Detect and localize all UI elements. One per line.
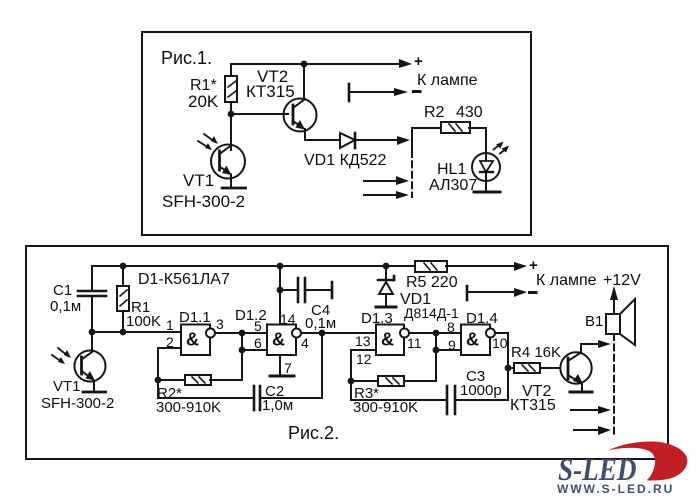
gate D1.3 <box>376 325 409 356</box>
label + (fig2) <box>529 257 538 274</box>
label pin 9 <box>448 337 456 353</box>
frame figure 2 <box>26 246 668 459</box>
arrowhead lamp 2 fig1 <box>396 191 409 199</box>
svg-text:R5 220: R5 220 <box>406 274 458 291</box>
label HL1 АЛ307 <box>429 161 477 194</box>
svg-text:13: 13 <box>355 333 371 349</box>
svg-text:430: 430 <box>456 104 483 121</box>
label R3* <box>354 385 379 402</box>
svg-text:300-910K: 300-910K <box>353 399 418 416</box>
svg-text:К лампе: К лампе <box>536 272 597 289</box>
svg-text:C1: C1 <box>53 282 72 299</box>
arrowhead lamp 1 fig2 <box>598 406 611 414</box>
photo arrows VT1 fig1 <box>198 134 218 150</box>
wire minus line fig2 <box>467 291 518 293</box>
resistor R1 (fig1) <box>225 64 237 114</box>
svg-text:&: & <box>466 330 479 350</box>
svg-text:D1.2: D1.2 <box>235 307 267 324</box>
wire top rail fig2 <box>92 265 415 267</box>
node rail VD1 <box>383 263 390 270</box>
label C4 0,1м <box>305 302 336 332</box>
label D1.2 <box>235 307 267 324</box>
transistor VT2 (fig2) <box>560 344 591 392</box>
svg-text:D1-К561ЛА7: D1-К561ЛА7 <box>138 271 230 288</box>
wire lamp arrow 1 fig1 <box>364 180 400 182</box>
zener VD1 fig2 <box>378 266 394 306</box>
diode VD1 (fig1) <box>340 133 355 148</box>
resistor R2* <box>158 375 242 385</box>
node R4 tap <box>505 365 512 372</box>
svg-text:D1.4: D1.4 <box>466 310 498 327</box>
svg-text:VT1: VT1 <box>53 378 81 395</box>
svg-text:0,1м: 0,1м <box>305 315 336 332</box>
LED arrows HL1 <box>494 142 510 154</box>
label КТ315 fig2 <box>510 397 556 414</box>
resistor R4 <box>508 363 560 373</box>
label R4 16K <box>511 344 561 361</box>
arrowhead lamp 2 fig2 <box>598 426 611 435</box>
label pin 2 <box>166 334 174 350</box>
node D1.1 out vertical top <box>239 330 246 337</box>
svg-text:14: 14 <box>280 311 296 327</box>
svg-text:Рис.2.: Рис.2. <box>288 423 339 443</box>
logo www.s-led.ru text <box>557 482 674 496</box>
svg-text:VT1: VT1 <box>183 171 214 190</box>
ground HL1 <box>474 191 500 194</box>
svg-text:Рис.1.: Рис.1. <box>161 48 212 68</box>
label D1.3 <box>361 310 393 327</box>
resistor R5 <box>415 261 447 272</box>
label pin 1 <box>166 317 174 333</box>
transistor VT2 (fig1) <box>284 64 317 140</box>
svg-text:11: 11 <box>407 335 422 351</box>
label R5 220 <box>406 274 458 291</box>
label - (fig1) <box>414 90 421 93</box>
wire VT2 emitter to VD1 <box>305 139 340 141</box>
svg-text:SFH-300-2: SFH-300-2 <box>162 192 245 211</box>
wire pin6 stub <box>242 349 267 351</box>
photo arrows VT1 fig2 <box>52 348 71 364</box>
label pin 13 <box>355 333 371 349</box>
phototransistor VT1 (fig2) <box>75 332 106 390</box>
gate D1.4 <box>461 325 495 356</box>
svg-text:R4 16K: R4 16K <box>511 344 561 361</box>
ground VT2 fig2 <box>570 391 592 394</box>
label +12V <box>603 272 641 289</box>
svg-text:VD1 КД522: VD1 КД522 <box>304 152 387 169</box>
ground bar minus terminal fig1 <box>348 84 351 101</box>
label pin 12 <box>356 351 372 367</box>
label R1 100K <box>126 299 161 330</box>
arrowhead into lamp node fig1 <box>397 136 410 145</box>
wire feedback vertical D1.1 <box>241 333 243 380</box>
svg-text:6: 6 <box>254 335 262 351</box>
svg-text:1000р: 1000р <box>460 382 502 399</box>
resistor R2 (fig1) <box>441 122 470 133</box>
label D1-К561ЛА7 <box>138 271 230 288</box>
svg-text:D1.3: D1.3 <box>361 310 393 327</box>
wire D1.4 output down <box>496 333 509 400</box>
capacitor C3 <box>351 381 508 414</box>
svg-text:КТ315: КТ315 <box>510 397 556 414</box>
node junction R1 top rail <box>301 61 308 68</box>
arrowhead minus fig2 <box>514 288 527 297</box>
gate D1.2 <box>267 325 301 356</box>
label pin 3 <box>216 316 224 332</box>
svg-text:100K: 100K <box>126 313 161 330</box>
wire input line to D1.1 pin1 <box>92 331 181 333</box>
label C3 1000р <box>460 368 502 399</box>
svg-text:B1: B1 <box>585 313 603 330</box>
svg-text:9: 9 <box>448 337 456 353</box>
label 300-910K (right) <box>353 399 418 416</box>
wire VT2 base <box>231 113 288 115</box>
wire top rail fig1 <box>231 63 404 65</box>
label D1.1 <box>179 309 211 326</box>
node rail pin14 <box>277 263 284 270</box>
wire R2 to HL1 <box>469 128 486 154</box>
label pin 8 <box>447 319 455 335</box>
label pin 6 <box>254 335 262 351</box>
ground VD1 <box>376 306 396 309</box>
wire pin9 stub <box>436 349 461 351</box>
label pin 7 <box>284 360 292 376</box>
wire VD1 to lamp branch <box>355 139 400 141</box>
wire D1.1 pin2 <box>158 348 181 380</box>
label VT1 fig2 <box>53 378 81 395</box>
label pin 5 <box>254 318 262 334</box>
svg-text:300-910K: 300-910K <box>156 399 221 416</box>
wire VT2 collector <box>581 343 604 345</box>
label VT2 КТ315 <box>246 67 295 101</box>
label + (fig1) <box>414 53 423 70</box>
node C4 tap <box>277 287 284 294</box>
svg-text:&: & <box>272 330 285 350</box>
wire feedback vertical D1.3 <box>435 333 437 381</box>
svg-text:2: 2 <box>166 334 174 350</box>
svg-text:8: 8 <box>447 319 455 335</box>
label pin 4 <box>301 335 309 351</box>
label SFH-300-2 fig1 <box>162 192 245 211</box>
LED HL1 <box>472 153 500 190</box>
wire pin 14 <box>279 266 281 325</box>
resistor R3* <box>351 376 436 386</box>
wire rail after R5 <box>446 265 518 267</box>
label C1 0,1м <box>50 282 81 315</box>
wire lamp node vertical dashed <box>411 151 413 197</box>
svg-text:&: & <box>186 330 199 350</box>
arrowhead collector to lamp <box>598 340 611 348</box>
label VT2 fig2 <box>522 383 551 400</box>
label 300-910K (left) <box>156 399 221 416</box>
wire D1.1 output to D1.2 <box>216 332 268 334</box>
node VT1 collector C1 <box>89 329 96 336</box>
gate D1.1 <box>181 325 215 356</box>
svg-text:SFH-300-2: SFH-300-2 <box>41 395 114 412</box>
label К лампе (fig1) <box>417 72 478 89</box>
ground pin7 <box>270 375 294 378</box>
svg-text:КТ315: КТ315 <box>246 82 295 101</box>
phototransistor VT1 (fig1) <box>211 145 245 188</box>
wire lamp node vertical solid <box>411 128 413 151</box>
frame figure 1 <box>142 32 531 235</box>
label Рис.2. <box>288 423 339 443</box>
wire lamp arrow 2 fig2 <box>574 429 604 431</box>
label pin 11 <box>407 335 422 351</box>
label C2 1,0м <box>262 383 293 414</box>
svg-text:10: 10 <box>492 335 508 351</box>
label VD1 КД522 <box>304 152 387 169</box>
label R2 430 <box>424 104 483 121</box>
node D1.3 out top <box>433 330 440 337</box>
wire pin 7 ground <box>279 355 281 376</box>
node C2 feedback / pin13 line <box>319 330 326 337</box>
wire R1 bottom to VT1 collector <box>230 114 232 150</box>
arrowhead minus fig1 <box>394 88 408 96</box>
svg-text:D1.1: D1.1 <box>179 309 211 326</box>
ground bar minus terminal fig2 <box>466 286 469 300</box>
node rail R1 <box>120 263 127 270</box>
wire to R2 <box>412 127 441 129</box>
speaker B1 <box>606 299 635 345</box>
arrowhead + rail fig2 <box>514 262 527 271</box>
wire D1.3 output <box>410 332 462 334</box>
resistor R1 (fig2) <box>117 266 129 332</box>
node R2* left <box>155 377 162 384</box>
ground VT1 fig2 <box>83 391 106 394</box>
node junction R1 bottom / VT2 base <box>228 111 235 118</box>
svg-text:+12V: +12V <box>603 272 641 289</box>
svg-text:7: 7 <box>284 360 292 376</box>
svg-text:HL1: HL1 <box>437 161 466 178</box>
node R1 bottom input line <box>120 329 127 336</box>
svg-text:4: 4 <box>301 335 309 351</box>
label R2* <box>157 385 182 402</box>
svg-text:3: 3 <box>216 316 224 332</box>
label D1.4 <box>466 310 498 327</box>
wire D1.2 output to D1.3 pin13 <box>302 332 377 334</box>
wire lamp arrow 2 fig1 <box>364 194 400 196</box>
logo S-LED crescent <box>608 441 688 480</box>
arrowhead lamp 1 fig1 <box>396 176 409 185</box>
label - (fig2) <box>530 291 537 294</box>
svg-text:+: + <box>414 53 423 70</box>
svg-text:20K: 20K <box>188 92 219 111</box>
ground bar C4 terminal <box>331 282 334 298</box>
wire D1.3 pin12 <box>351 350 376 381</box>
svg-text:1: 1 <box>166 317 174 333</box>
svg-text:К лампе: К лампе <box>417 72 478 89</box>
node R3* left <box>348 378 355 385</box>
label pin 10 <box>492 335 508 351</box>
svg-text:&: & <box>381 330 394 350</box>
svg-text:АЛ307: АЛ307 <box>429 177 477 194</box>
wire lamp arrow 1 fig2 <box>571 409 604 411</box>
label SFH-300-2 fig2 <box>41 395 114 412</box>
label Рис.1. <box>161 48 212 68</box>
svg-text:WWW.S-LED.RU: WWW.S-LED.RU <box>557 482 674 496</box>
node pin9 tap <box>433 347 440 354</box>
wire dashed lamp line <box>613 334 615 437</box>
wire minus line fig1 <box>349 91 399 93</box>
label VD1 fig2 <box>400 291 431 308</box>
ground VT1 fig1 <box>222 187 246 190</box>
arrowhead + rail fig1 <box>399 59 412 68</box>
logo S-LED text <box>558 453 637 487</box>
capacitor C1 <box>78 266 106 332</box>
capacitor C2 <box>158 333 322 410</box>
node pin6 tap <box>239 347 246 354</box>
svg-text:1,0м: 1,0м <box>262 397 293 414</box>
svg-text:12: 12 <box>356 351 372 367</box>
wire +12V arrow <box>610 286 618 314</box>
label R1* 20K <box>188 77 219 111</box>
capacitor C4 <box>280 278 332 302</box>
label К лампе (fig2) <box>536 272 597 289</box>
svg-text:R2: R2 <box>424 104 445 121</box>
label VT1 fig1 <box>183 171 214 190</box>
label B1 <box>585 313 603 330</box>
label pin 14 <box>280 311 296 327</box>
svg-text:0,1м: 0,1м <box>50 298 81 315</box>
label Д814Д-1 <box>404 305 459 321</box>
